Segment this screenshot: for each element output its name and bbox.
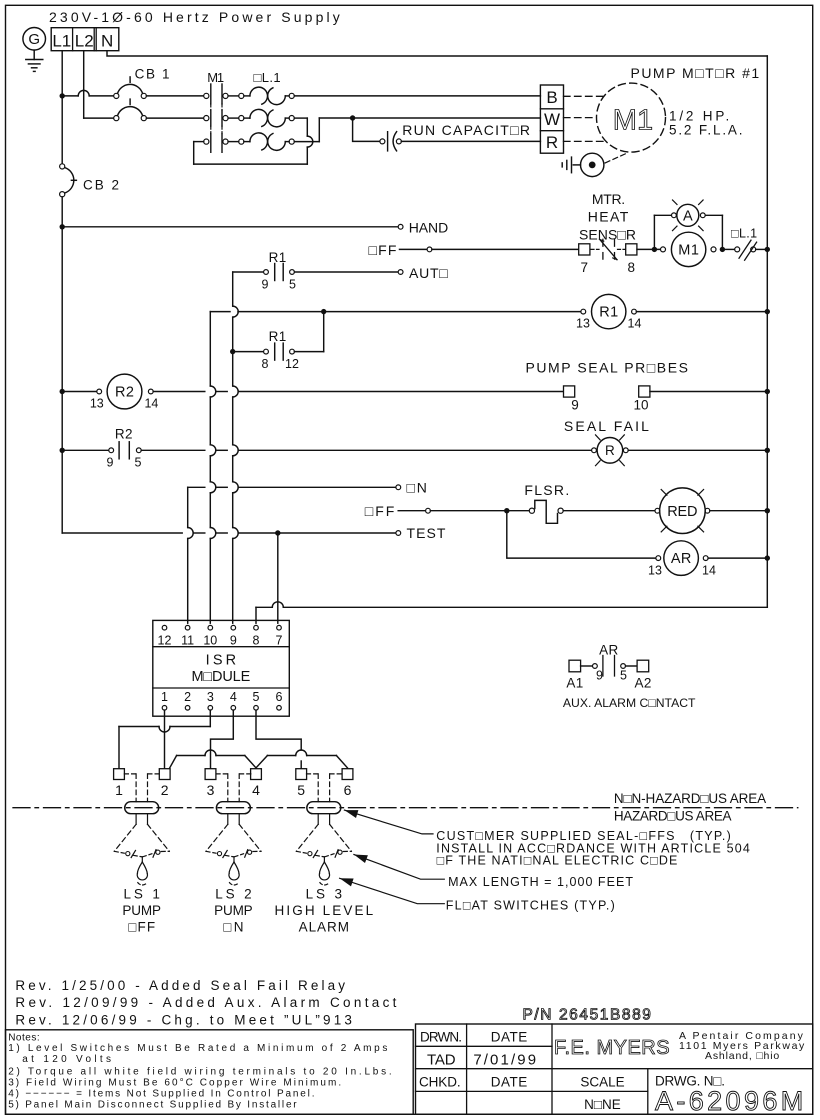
wire neutral N to right rail <box>107 51 767 56</box>
svg-text:M1: M1 <box>613 105 653 137</box>
dashed link ground to motor <box>605 153 628 163</box>
svg-text:□F THE NATI□NAL ELECTRIC C□DE: □F THE NATI□NAL ELECTRIC C□DE <box>437 854 679 868</box>
pilot light RED <box>655 508 660 513</box>
wire pin10 vertical <box>209 312 211 386</box>
svg-text:HAZARD□US AREA: HAZARD□US AREA <box>614 808 732 823</box>
svg-text:RUN CAPACIT□R: RUN CAPACIT□R <box>402 122 531 138</box>
svg-text:9: 9 <box>571 398 579 413</box>
svg-text:PUMP SEAL PR□BES: PUMP SEAL PR□BES <box>526 360 690 376</box>
title block grid <box>416 1024 813 1114</box>
node run capacitor tap <box>350 115 355 120</box>
svg-text:4: 4 <box>230 690 237 704</box>
svg-text:RED: RED <box>667 504 697 520</box>
wire box8 to M1 coil <box>637 248 660 250</box>
node TEST pin7 <box>275 530 280 535</box>
svg-text:L2: L2 <box>75 32 94 51</box>
probe terminal 10 <box>639 386 650 397</box>
wire FLSR to RED <box>563 510 655 512</box>
svg-text:LS 2: LS 2 <box>215 886 254 901</box>
svg-text:A2: A2 <box>634 676 651 691</box>
wire OFF circle to FLSR <box>430 510 529 512</box>
node rail R1 row <box>765 309 770 314</box>
svg-text:M1: M1 <box>207 70 224 85</box>
callout arrow max length <box>354 855 444 880</box>
wire common zigzag squares 2-4-6 <box>170 756 177 768</box>
svg-text:1) Level Switches Must Be Rate: 1) Level Switches Must Be Rated a Minimu… <box>8 1043 390 1054</box>
node rail M1 row <box>765 247 770 252</box>
contactor M1 pole1 contacts <box>204 93 209 98</box>
circuit breaker CB2 <box>60 164 65 169</box>
dashed motor lead B <box>564 95 605 97</box>
ISR bottom terminals 1-6 <box>162 706 167 711</box>
svg-text:MTR.: MTR. <box>592 191 625 207</box>
contact R1 8-12 <box>233 351 264 353</box>
svg-text:5.2 F.L.A.: 5.2 F.L.A. <box>669 122 744 137</box>
node ammeter branch left <box>652 247 657 252</box>
float switch relay FLSR contact <box>529 508 534 513</box>
wire AR branch <box>507 511 656 558</box>
wire OL1 pole1 to terminal B <box>294 95 540 97</box>
svg-text:DATE: DATE <box>491 1075 528 1090</box>
svg-text:AR: AR <box>671 551 692 567</box>
svg-text:□L.1: □L.1 <box>254 70 281 85</box>
svg-text:1: 1 <box>161 690 168 704</box>
svg-text:L1: L1 <box>52 32 71 51</box>
svg-text:G: G <box>28 31 40 48</box>
relay coil R1 <box>581 309 586 314</box>
svg-text:10: 10 <box>633 398 648 413</box>
svg-text:2: 2 <box>184 690 191 704</box>
svg-text:13: 13 <box>90 397 104 411</box>
ground symbol <box>33 50 35 59</box>
wire selector to heat sensor <box>432 248 579 250</box>
svg-text:R: R <box>546 133 558 152</box>
wire pin11 vertical <box>187 487 189 527</box>
node ammeter branch right <box>720 247 725 252</box>
wire pole2 loop to pole3 input <box>294 117 307 119</box>
wire L1 to CB1 with hop over L2 <box>62 95 78 97</box>
svg-text:R1: R1 <box>269 250 287 265</box>
terminal block B W R <box>540 85 563 153</box>
svg-text:3: 3 <box>207 782 215 798</box>
svg-text:2) Torque all white field wiri: 2) Torque all white field wiring termina… <box>8 1067 394 1078</box>
wire HAND row <box>62 226 398 228</box>
wire M1 coil to OL contact <box>722 248 734 250</box>
svg-text:N: N <box>101 32 113 51</box>
node rail seal row <box>765 448 770 453</box>
contactor M1 bars <box>210 84 212 104</box>
svg-text:HIGH LEVEL: HIGH LEVEL <box>274 903 375 918</box>
terminal squares 1-6 <box>114 769 125 780</box>
node FLSR branch <box>504 508 509 513</box>
svg-text:3) Field Wiring Must Be 60°C C: 3) Field Wiring Must Be 60°C Copper Wire… <box>8 1078 343 1089</box>
svg-text:LS 1: LS 1 <box>123 886 162 901</box>
node L1-CB1 <box>60 93 65 98</box>
svg-text:□L.1: □L.1 <box>731 227 758 241</box>
svg-text:FLSR.: FLSR. <box>524 482 570 498</box>
wire R2 coil left <box>62 391 97 393</box>
terminal block L1 L2 N <box>51 28 119 51</box>
svg-text:11: 11 <box>181 634 194 648</box>
svg-text:14: 14 <box>144 397 158 411</box>
svg-text:B: B <box>546 88 557 107</box>
svg-text:8: 8 <box>262 357 269 371</box>
probe terminal 9 <box>564 386 575 397</box>
ammeter A <box>672 213 677 218</box>
contact R2 9-5 <box>62 449 109 451</box>
svg-text:N□N-HAZARD□US AREA: N□N-HAZARD□US AREA <box>614 791 766 806</box>
relay coil M1 <box>661 247 666 252</box>
svg-text:6: 6 <box>344 782 352 798</box>
wire ON row <box>188 486 205 488</box>
svg-text:9: 9 <box>596 668 603 682</box>
svg-text:13: 13 <box>576 316 590 330</box>
svg-text:□N: □N <box>407 480 429 496</box>
wire pin5 to square5 <box>256 710 301 750</box>
svg-text:5: 5 <box>253 690 260 704</box>
svg-text:1/2 HP.: 1/2 HP. <box>669 109 732 124</box>
svg-text:CB 1: CB 1 <box>135 67 172 82</box>
dashed motor lead W <box>564 117 597 119</box>
svg-text:DATE: DATE <box>491 1030 528 1045</box>
svg-text:5) Panel Main Disconnect Suppl: 5) Panel Main Disconnect Supplied By Ins… <box>8 1099 298 1110</box>
svg-text:5: 5 <box>289 277 296 291</box>
pump motor M1 dashed circle <box>597 83 666 152</box>
svg-text:W: W <box>544 110 560 129</box>
wire OL contact to rail <box>756 248 768 250</box>
svg-text:PUMP: PUMP <box>214 903 253 918</box>
svg-text:FL□AT SWITCHES (TYP.): FL□AT SWITCHES (TYP.) <box>446 898 616 912</box>
svg-text:10: 10 <box>203 634 217 648</box>
svg-text:AUX. ALARM C□NTACT: AUX. ALARM C□NTACT <box>563 696 696 710</box>
svg-text:TEST: TEST <box>407 525 447 541</box>
svg-text:□FF: □FF <box>365 503 397 519</box>
svg-text:DRWN.: DRWN. <box>420 1030 461 1045</box>
svg-text:5: 5 <box>620 668 627 682</box>
contact R1 9-5 <box>233 271 264 273</box>
svg-text:CHKD.: CHKD. <box>419 1075 461 1090</box>
node rail AR row <box>765 555 770 560</box>
wire RED to rail <box>710 510 768 512</box>
float switch LS3 assembly <box>307 773 319 775</box>
svg-text:8: 8 <box>253 634 260 648</box>
svg-text:F.E. MYERS: F.E. MYERS <box>554 1037 670 1059</box>
svg-text:Notes:: Notes: <box>8 1032 40 1043</box>
contactor M1 pole2 contacts <box>204 116 209 121</box>
node rail probes row <box>765 389 770 394</box>
svg-text:HAND: HAND <box>409 220 449 236</box>
wire pin9 vertical <box>232 272 234 306</box>
svg-text:4) −−−−−− = Items Not Supplied: 4) −−−−−− = Items Not Supplied In Contro… <box>8 1089 316 1100</box>
circuit breaker CB1 pole 1 <box>114 93 119 98</box>
svg-text:A1: A1 <box>566 676 583 691</box>
node rail RED row <box>765 508 770 513</box>
overload contact OL.1 <box>735 247 740 252</box>
svg-text:7/01/99: 7/01/99 <box>473 1051 538 1068</box>
svg-text:5: 5 <box>297 782 305 798</box>
svg-text:14: 14 <box>628 316 642 330</box>
svg-text:SENS□R: SENS□R <box>579 227 636 243</box>
wire L1 drop <box>61 51 63 96</box>
svg-text:Rev. 1/25/00 - Added Seal Fail: Rev. 1/25/00 - Added Seal Fail Relay <box>15 978 348 993</box>
motor frame ground symbol <box>573 164 580 166</box>
svg-text:HEAT: HEAT <box>588 209 630 225</box>
node R2 contact row <box>60 448 65 453</box>
svg-text:A: A <box>683 209 693 225</box>
svg-text:A-62096M: A-62096M <box>655 1086 807 1116</box>
svg-text:9: 9 <box>107 456 114 470</box>
svg-text:12: 12 <box>285 357 299 371</box>
svg-text:CB 2: CB 2 <box>83 178 121 193</box>
svg-text:7: 7 <box>276 634 283 648</box>
svg-text:7: 7 <box>581 260 589 275</box>
svg-text:3: 3 <box>207 690 214 704</box>
svg-text:5: 5 <box>135 456 142 470</box>
svg-text:M□DULE: M□DULE <box>192 669 251 685</box>
wire rail CB2 down <box>61 197 63 533</box>
ISR top terminals 12-7 <box>162 625 167 630</box>
seal fail light R <box>592 448 597 453</box>
svg-text:8: 8 <box>628 260 636 275</box>
dashed motor lead R <box>564 140 607 142</box>
wire L2 drop <box>83 51 85 118</box>
svg-text:PUMP: PUMP <box>122 903 161 918</box>
svg-text:R1: R1 <box>269 329 287 344</box>
svg-text:AUT□: AUT□ <box>409 265 449 281</box>
wire capacitor branch <box>353 118 380 141</box>
svg-text:at 120 Volts: at 120 Volts <box>22 1054 114 1065</box>
svg-text:□N: □N <box>223 919 246 934</box>
svg-text:4: 4 <box>252 782 260 798</box>
svg-text:12: 12 <box>158 634 172 648</box>
ISR module box <box>153 620 289 716</box>
svg-text:P/N 26451B889: P/N 26451B889 <box>523 1007 653 1024</box>
overload heater OL.1 pole3 <box>239 139 244 144</box>
node HAND row <box>60 224 65 229</box>
right rail wire <box>766 56 768 607</box>
wire R1 coil row <box>210 311 230 313</box>
svg-text:SCALE: SCALE <box>580 1075 624 1090</box>
ground terminal G <box>23 28 46 51</box>
wire CB1 pole2 to contactor <box>146 117 203 119</box>
capacitor RUN CAPACITOR <box>380 139 385 144</box>
terminal box 8 <box>626 244 637 255</box>
svg-text:MAX LENGTH = 1,000 FEET: MAX LENGTH = 1,000 FEET <box>448 875 634 889</box>
svg-text:N□NE: N□NE <box>584 1097 621 1112</box>
wire CB1 pole1 to contactor <box>146 95 203 97</box>
svg-text:9: 9 <box>262 277 269 291</box>
svg-text:230V-1Ø-60 Hertz Power Supply: 230V-1Ø-60 Hertz Power Supply <box>49 9 343 25</box>
svg-text:R1: R1 <box>599 305 618 321</box>
svg-text:R: R <box>605 443 615 458</box>
wire TEST row <box>62 532 182 534</box>
svg-text:ISR: ISR <box>206 653 240 669</box>
svg-text:6: 6 <box>276 690 283 704</box>
overload heater OL.1 pole1 <box>239 93 244 98</box>
callout arrow seal-offs <box>344 810 433 834</box>
motor ground dot circle <box>581 153 604 176</box>
notes box <box>6 1030 414 1115</box>
node R2 coil row <box>60 389 65 394</box>
relay coil AR <box>656 556 661 561</box>
svg-text:AR: AR <box>599 642 619 657</box>
svg-text:Rev. 12/09/99 - Added Aux. Ala: Rev. 12/09/99 - Added Aux. Alarm Contact <box>15 995 399 1010</box>
svg-text:13: 13 <box>648 563 662 577</box>
svg-text:14: 14 <box>702 563 716 577</box>
wire neutral bottom <box>283 606 767 608</box>
wire OFF to selector circle <box>400 248 428 250</box>
wire pin7 vertical <box>277 533 279 623</box>
svg-text:□FF: □FF <box>128 919 156 934</box>
wire L2 to CB1 pole2 <box>84 117 114 119</box>
wire probes row <box>153 391 205 393</box>
svg-text:R2: R2 <box>115 427 133 442</box>
float switch LS1 assembly <box>124 773 136 775</box>
heat sensor thermal contact <box>591 248 599 250</box>
wire OFF lower to circle <box>398 510 425 512</box>
float switch LS2 assembly <box>216 773 228 775</box>
terminal box 7 <box>579 244 590 255</box>
ammeter branch wires <box>653 215 655 249</box>
callout arrow float switches <box>340 878 445 903</box>
svg-text:□FF: □FF <box>369 242 398 258</box>
wire R1 coil to rail <box>636 311 767 313</box>
svg-text:2: 2 <box>161 782 169 798</box>
relay coil R2 <box>97 389 102 394</box>
svg-text:9: 9 <box>230 634 237 648</box>
contactor M1 pole3 contacts <box>204 139 209 144</box>
wire probe10 to rail <box>650 391 767 393</box>
wire AR to rail <box>708 557 767 559</box>
wire pin3 to square1 <box>209 710 211 726</box>
node R1 branch <box>321 309 326 314</box>
wire pole3 out to terminal W <box>294 141 319 143</box>
hazardous area boundary dash-dot line <box>13 807 798 809</box>
aux contact AR 9-5 <box>569 660 581 672</box>
overload heater OL.1 pole2 <box>239 116 244 121</box>
wire pin4 to square3 <box>211 710 234 768</box>
svg-text:LS 3: LS 3 <box>306 886 345 901</box>
wire rail CB1node to CB2 <box>61 96 63 164</box>
svg-text:SEAL FAIL: SEAL FAIL <box>564 418 651 434</box>
circuit breaker CB1 pole 2 <box>114 116 119 121</box>
svg-text:Rev. 12/06/99 - Chg. to Meet ”: Rev. 12/06/99 - Chg. to Meet ”UL”913 <box>15 1012 355 1027</box>
wire seal fail to rail <box>628 449 767 451</box>
svg-text:PUMP M□T□R #1: PUMP M□T□R #1 <box>631 65 761 81</box>
svg-text:Ashland, □hio: Ashland, □hio <box>705 1050 780 1062</box>
wire pin1 to square2 <box>164 710 166 768</box>
svg-text:M1: M1 <box>678 243 699 259</box>
svg-text:1: 1 <box>115 782 123 798</box>
svg-text:R2: R2 <box>115 385 134 401</box>
svg-text:ALARM: ALARM <box>299 919 350 934</box>
svg-text:TAD: TAD <box>427 1051 456 1068</box>
